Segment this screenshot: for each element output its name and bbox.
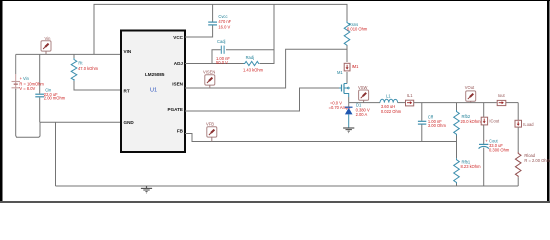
capacitor Cvcc	[208, 22, 217, 25]
wire PGATE net	[185, 88, 339, 111]
svg-text:0.022 Ohm: 0.022 Ohm	[381, 109, 402, 114]
wire L1 to IL1	[398, 102, 406, 104]
svg-text:47.0 kOhm: 47.0 kOhm	[78, 66, 99, 71]
resistor Rload	[515, 152, 521, 177]
current probe Iout	[497, 100, 506, 105]
current probe ILoad	[515, 120, 522, 127]
wire VIN input	[16, 53, 121, 55]
svg-text:VISEN: VISEN	[203, 69, 215, 74]
wire battery top lead	[15, 54, 17, 74]
svg-text:ICout: ICout	[489, 118, 500, 123]
svg-text:V = 8.0V: V = 8.0V	[19, 86, 35, 91]
svg-text:Radj: Radj	[246, 55, 255, 60]
current probe IM1	[344, 63, 350, 71]
IC U1 LM25085	[121, 31, 185, 153]
ground under D1	[343, 128, 354, 133]
wire FB net	[185, 134, 457, 142]
svg-text:2.00 mOhm: 2.00 mOhm	[44, 96, 66, 101]
probe VOut	[466, 91, 476, 103]
wire top rail VIN net	[94, 4, 347, 54]
svg-text:VIN: VIN	[124, 49, 132, 54]
wire ground rail	[56, 185, 519, 187]
wire Rt branch	[73, 54, 75, 58]
svg-text:ADJ: ADJ	[174, 61, 184, 66]
svg-text:VFB: VFB	[206, 122, 214, 127]
svg-text:VOut: VOut	[465, 85, 475, 90]
resistor Radj	[244, 61, 260, 65]
svg-text:IL1: IL1	[407, 93, 413, 98]
inductor L1	[380, 99, 398, 102]
wire ADJ net	[185, 50, 221, 64]
svg-text:16.0 V: 16.0 V	[218, 24, 230, 29]
probe VSW	[359, 90, 369, 103]
wire GND drop	[55, 122, 57, 186]
resistor Rfb1	[454, 142, 460, 187]
resistor Rt	[71, 58, 77, 81]
capacitor Cin	[35, 94, 44, 97]
svg-text:20.0 kOhm: 20.0 kOhm	[461, 119, 482, 124]
svg-text:FB: FB	[177, 128, 184, 133]
svg-text:ISEN: ISEN	[172, 82, 183, 87]
svg-text:LM25085: LM25085	[145, 72, 165, 77]
wire Rload to rail	[517, 177, 519, 186]
wire Cin branch	[39, 54, 41, 93]
svg-text:0.010 Ohm: 0.010 Ohm	[347, 27, 368, 32]
wire output node	[414, 102, 497, 104]
svg-text:Iout: Iout	[498, 93, 506, 98]
svg-text:0.300 Ohm: 0.300 Ohm	[489, 147, 510, 152]
wire M1 drain to switch node	[348, 97, 350, 103]
probe Vin	[41, 41, 51, 55]
svg-text:3.00 Ohm: 3.00 Ohm	[428, 123, 447, 128]
svg-text:8.23 kOhm: 8.23 kOhm	[461, 164, 482, 169]
svg-text:R = 2.00 Ohm: R = 2.00 Ohm	[524, 158, 550, 163]
svg-text:Cadj: Cadj	[217, 39, 226, 44]
svg-text:1.43 kOhm: 1.43 kOhm	[243, 67, 264, 72]
wire load branch	[517, 103, 519, 121]
svg-text:2.00 A: 2.00 A	[356, 112, 368, 117]
wire VCC net	[185, 25, 213, 37]
current probe IL1	[406, 100, 414, 106]
svg-text:L1: L1	[386, 93, 391, 98]
capacitor Cout polarized	[479, 144, 489, 186]
wire IM1 to M1	[346, 72, 348, 84]
battery V1 Vin source	[12, 82, 21, 88]
svg-text:VSW: VSW	[358, 85, 367, 90]
capacitor Cff	[418, 103, 426, 142]
svg-text:PGATE: PGATE	[168, 107, 183, 112]
svg-text:U1: U1	[150, 88, 157, 94]
wire battery bottom loop	[16, 89, 40, 137]
resistor Rfb2	[454, 103, 460, 142]
capacitor Cadj	[221, 46, 224, 54]
svg-text:50.0 V: 50.0 V	[216, 60, 228, 65]
wire Rsns to IM1	[346, 46, 348, 63]
transistor M1 PMOS	[339, 84, 350, 98]
svg-text:VCC: VCC	[173, 35, 183, 40]
svg-text:ILoad: ILoad	[523, 122, 534, 127]
probe VISEN	[205, 75, 215, 88]
diode D1	[345, 103, 353, 128]
wire ISEN net	[185, 49, 347, 88]
svg-text:M1: M1	[337, 70, 343, 75]
svg-text:Vin: Vin	[45, 36, 52, 41]
wire switch node	[349, 102, 380, 104]
wire GND to IC	[40, 121, 121, 123]
resistor Rsns	[344, 21, 350, 47]
svg-text:GND: GND	[124, 120, 135, 125]
current probe ICout	[481, 103, 487, 144]
wire ILoad to Rload	[517, 127, 519, 152]
svg-text:IM1: IM1	[352, 64, 360, 69]
probe VFB	[207, 127, 217, 142]
svg-text:RT: RT	[124, 88, 130, 93]
ground on rail	[141, 186, 152, 193]
